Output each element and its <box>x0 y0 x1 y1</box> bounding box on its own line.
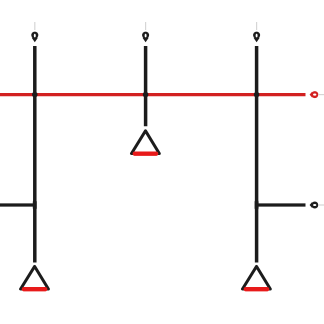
wire W5 left stub <box>0 203 34 206</box>
junction J3 <box>254 92 260 98</box>
wire W1 vertical left <box>33 46 37 263</box>
ground G2 bottom-left <box>21 266 49 289</box>
wire W6 right stub <box>257 203 306 206</box>
wire W3 vertical right <box>255 46 259 263</box>
wire W2 vertical middle <box>144 46 148 126</box>
junction J4 <box>33 200 37 210</box>
ground G1 middle <box>132 131 160 154</box>
ground G3 bottom-right <box>243 266 271 289</box>
pin P2 top-middle terminal <box>142 22 149 42</box>
junction J1 <box>32 92 38 98</box>
junction J5 <box>255 200 259 210</box>
pin P4 red net terminal <box>310 91 324 98</box>
pin P1 top-left terminal <box>31 22 38 42</box>
junction J2 <box>143 92 149 98</box>
pin P3 top-right terminal <box>253 22 260 42</box>
wire W4 red horizontal net <box>0 93 306 96</box>
pin P5 right stub terminal <box>310 202 324 209</box>
